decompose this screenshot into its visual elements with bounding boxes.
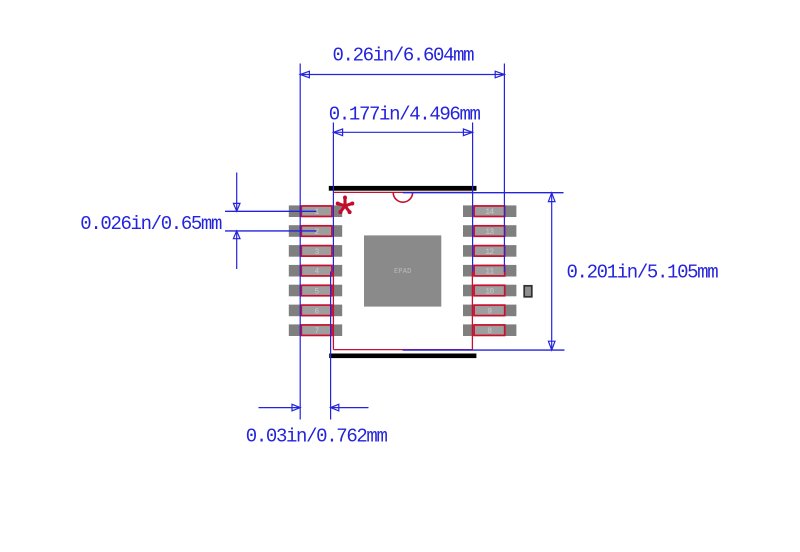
svg-text:12: 12 (485, 248, 494, 257)
svg-text:0.201in/5.105mm: 0.201in/5.105mm (567, 262, 719, 284)
extension line pin2 center (225, 230, 316, 232)
pad 12 (right column) (463, 245, 516, 257)
pad 1 (left column) (289, 205, 342, 217)
pad 11 (right column) (463, 265, 516, 277)
pad 6 (left column) (289, 305, 342, 317)
pad 14 (right column) (463, 205, 516, 217)
dimension 0.03in: outside arrows (259, 404, 369, 411)
svg-text:13: 13 (485, 228, 494, 237)
dimension 0.201in height: line and arrows (548, 193, 555, 350)
svg-text:10: 10 (485, 287, 494, 296)
extension line body-left upper (x=333.4) (332, 123, 334, 272)
pad 4 (left column) (289, 265, 342, 277)
pin-1 marker asterisk (336, 196, 355, 215)
svg-text:11: 11 (485, 268, 494, 277)
extension line left (x=300) (299, 64, 301, 420)
svg-text:0.26in/6.604mm: 0.26in/6.604mm (333, 44, 475, 66)
extension line right (x=504.4) (503, 64, 505, 273)
pad 8 (right column) (463, 324, 516, 336)
dimension 0.177in body width: line and arrows (333, 129, 472, 136)
extension line pin1 center (225, 210, 316, 212)
dimension 0.026in pitch: outside arrows (233, 173, 240, 270)
silkscreen bottom bar (329, 354, 476, 359)
svg-text:EPAD: EPAD (394, 268, 412, 276)
body outline right edge (red) (471, 272, 473, 350)
extension line body-left lower (x=330.6) (330, 272, 332, 420)
EPAD exposed pad (364, 235, 441, 306)
pad 10 (right column) (463, 285, 516, 297)
svg-text:0.026in/0.65mm: 0.026in/0.65mm (80, 213, 222, 235)
body outline left edge (red) (332, 272, 334, 350)
extension line body bottom to right (403, 349, 565, 351)
pad 5 (left column) (289, 285, 342, 297)
pad 13 (right column) (463, 225, 516, 237)
pad 2 (left column) (289, 225, 342, 237)
pad 3 (left column) (289, 245, 342, 257)
pad 9 (right column) (463, 305, 516, 317)
pin-1 orientation arc (393, 193, 412, 203)
svg-text:0.03in/0.762mm: 0.03in/0.762mm (246, 426, 388, 448)
dimension 0.26in overall width: line and arrows (300, 71, 504, 78)
body outline top edge (red) (333, 191, 472, 193)
extension line body top to right (403, 192, 564, 194)
silkscreen top bar (329, 186, 477, 191)
svg-text:14: 14 (485, 208, 494, 217)
pad 7 (left column) (289, 324, 342, 336)
extension line body-right (x=472.6) (472, 123, 474, 272)
via / marker rectangle right of pad 10 (524, 286, 532, 297)
body outline bottom edge (red) (333, 349, 472, 351)
svg-text:0.177in/4.496mm: 0.177in/4.496mm (329, 104, 481, 126)
